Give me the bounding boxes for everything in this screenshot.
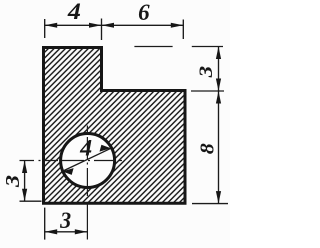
arrow bottom3-left <box>45 229 58 234</box>
arrow bottom3-right <box>75 229 88 234</box>
bottom dimension line <box>45 231 88 233</box>
arrow 4-right <box>89 23 102 28</box>
bottom extension line left <box>44 208 46 240</box>
diameter arrow lower-left <box>62 168 73 175</box>
svg-text:3: 3 <box>59 208 71 234</box>
svg-text:3: 3 <box>2 175 24 188</box>
arrow left3-down <box>22 189 27 202</box>
top dim extension line left <box>44 19 46 38</box>
left dimension line <box>24 161 26 202</box>
arrow left3-up <box>22 161 27 174</box>
arrow 3-up <box>216 47 221 60</box>
svg-text:6: 6 <box>138 0 150 25</box>
right extension line at bottom <box>192 203 228 205</box>
dashed level line at notch top <box>134 46 223 48</box>
arrow 8-down <box>216 191 221 204</box>
left extension line bottom <box>20 200 42 202</box>
svg-text:4: 4 <box>67 0 81 24</box>
hole circle d4 <box>61 134 115 188</box>
svg-text:4: 4 <box>79 136 92 161</box>
diameter arrow upper-right <box>100 145 111 152</box>
arrow 6-left <box>102 23 115 28</box>
arrow 3-down <box>216 79 221 92</box>
right extension line at step <box>191 90 224 92</box>
top dim extension line middle <box>101 19 103 41</box>
top dim extension line right <box>182 20 184 40</box>
right dimension line <box>218 47 220 204</box>
centerline horizontal <box>20 160 123 162</box>
arrow 4-left <box>45 23 58 28</box>
body L-shaped section (hatched) <box>44 48 186 204</box>
top dimension line <box>45 24 184 26</box>
diameter dimension line <box>62 148 111 171</box>
arrow 8-up <box>216 91 221 104</box>
arrow 6-right <box>171 23 184 28</box>
svg-text:3: 3 <box>196 66 217 79</box>
centerline vertical <box>86 126 88 240</box>
svg-text:8: 8 <box>196 143 218 154</box>
